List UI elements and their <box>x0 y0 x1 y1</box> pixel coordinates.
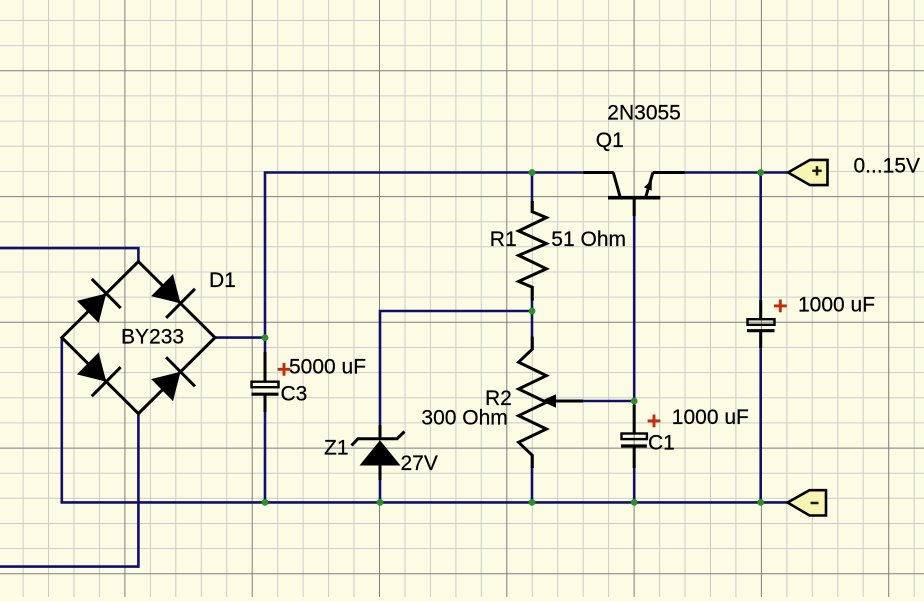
polarity plus of C3 <box>278 363 291 376</box>
capacitor C3 lead bottom <box>264 394 267 412</box>
node ground R2 <box>529 499 536 506</box>
transistor Q1 collector lead <box>583 171 613 174</box>
wire capacitor C1 bottom to ground rail <box>633 447 636 502</box>
wire R2 bottom to ground rail <box>531 455 534 502</box>
wire right capacitor bottom to ground rail <box>759 332 762 503</box>
output capacitor plates <box>747 319 775 331</box>
svg-text:R1: R1 <box>490 228 517 251</box>
output capacitor lead bottom <box>759 330 762 348</box>
capacitor C3 lead top <box>264 352 267 382</box>
svg-text:51 Ohm: 51 Ohm <box>551 228 626 251</box>
svg-text:1000 uF: 1000 uF <box>672 406 749 429</box>
label C3 <box>281 383 308 406</box>
label Q1 <box>596 129 624 152</box>
node top rail / R1 <box>529 169 536 176</box>
svg-text:300 Ohm: 300 Ohm <box>421 406 507 429</box>
value 300 Ohm <box>421 406 507 429</box>
wire AC input top from left edge to bridge top <box>0 248 138 262</box>
value 1000 uF of output capacitor <box>798 294 875 317</box>
node bridge plus / C3 <box>262 334 269 341</box>
label D1 <box>209 269 236 292</box>
potentiometer R2 wiper arrowhead <box>541 394 583 407</box>
label 0...15V <box>854 155 921 178</box>
wire Q1 base down to C1 and wiper node <box>633 198 636 434</box>
transistor Q1 emitter slant <box>646 173 653 197</box>
value 27V <box>401 452 438 475</box>
svg-text:2N3055: 2N3055 <box>607 102 681 125</box>
bridge rectifier D1 diamond outline <box>62 262 215 414</box>
value BY233 <box>121 326 184 349</box>
value 1000 uF of C1 <box>672 406 749 429</box>
transistor Q1 base lead stub <box>633 198 636 216</box>
diode lower-right of bridge (cathode to right vertex) <box>151 357 195 401</box>
label R2 <box>485 387 512 410</box>
node ground output <box>757 499 764 506</box>
wire ground rail along bottom <box>60 501 788 504</box>
svg-text:Z1: Z1 <box>324 437 349 460</box>
diode upper-left of bridge (cathode to top vertex) <box>77 279 121 323</box>
resistor R1 lead stubs <box>531 201 534 301</box>
value 5000 uF <box>289 356 366 379</box>
capacitor C1 lead bottom <box>633 446 636 468</box>
output capacitor lead top <box>759 300 762 320</box>
wire bridge minus (left vertex) down to ground rail <box>60 338 63 503</box>
label C1 <box>648 432 675 455</box>
diode upper-right of bridge (cathode to right vertex) <box>151 274 195 318</box>
wire zener Z1 anode to ground rail <box>379 466 382 503</box>
wire R1 bottom to mid node <box>531 287 534 311</box>
node ground C3 <box>262 499 269 506</box>
transistor Q1 base bar <box>608 196 660 200</box>
polarity plus of output capacitor <box>774 300 787 313</box>
zener Z1 lead <box>379 425 382 480</box>
node R1/R2/Z1 <box>529 308 536 315</box>
wire Q1 emitter to plus terminal <box>683 171 789 174</box>
transistor Q1 collector slant <box>613 173 620 197</box>
svg-text:D1: D1 <box>209 269 236 292</box>
wire AC input bottom: bridge bottom vertex down and out left edge <box>0 414 138 567</box>
wire mid node down to R2 top <box>531 311 534 350</box>
capacitor C1 plates <box>621 434 647 447</box>
svg-text:C1: C1 <box>648 432 675 455</box>
polarity plus of C1 <box>648 415 661 428</box>
potentiometer R2 zigzag <box>519 349 547 455</box>
label R1 <box>490 228 517 251</box>
svg-text:Q1: Q1 <box>596 129 624 152</box>
resistor R1 zigzag <box>519 212 547 288</box>
output terminal minus <box>788 490 827 515</box>
wire R1 top tap from top rail <box>531 173 534 213</box>
node output plus <box>757 169 764 176</box>
diode lower-left of bridge (cathode to bottom vertex) <box>77 352 121 396</box>
wire mid node left and down to zener Z1 <box>380 311 532 439</box>
node ground C1 <box>631 499 638 506</box>
capacitor C3 plates <box>252 382 279 395</box>
potentiometer R2 lead stubs <box>531 337 534 469</box>
svg-text:C3: C3 <box>281 383 308 406</box>
node wiper / C1 <box>631 398 638 405</box>
output terminal plus <box>788 160 828 185</box>
zener diode Z1 cathode bar with bent ends <box>352 432 405 446</box>
zener diode Z1 triangle <box>360 440 401 465</box>
transistor Q1 emitter arrow <box>644 180 652 191</box>
transistor Q1 emitter lead <box>653 171 685 174</box>
node ground Z1 <box>377 499 384 506</box>
wire R2 wiper from node to arrow <box>581 400 634 403</box>
wire bridge plus (right vertex) to C3 node <box>215 336 265 339</box>
svg-text:5000 uF: 5000 uF <box>289 356 366 379</box>
svg-text:27V: 27V <box>401 452 438 475</box>
wire C3 node up and along top to Q1 collector <box>265 173 585 338</box>
wire capacitor C3 bottom to ground rail <box>264 395 267 502</box>
value 2N3055 <box>607 102 681 125</box>
svg-text:BY233: BY233 <box>121 326 184 349</box>
svg-text:1000 uF: 1000 uF <box>798 294 875 317</box>
label Z1 <box>324 437 349 460</box>
capacitor C1 lead top <box>633 405 636 434</box>
svg-text:0...15V: 0...15V <box>854 155 921 178</box>
wire output node down to right capacitor <box>759 173 762 321</box>
value 51 Ohm <box>551 228 626 251</box>
wire C3 node down to capacitor C3 <box>264 338 267 382</box>
